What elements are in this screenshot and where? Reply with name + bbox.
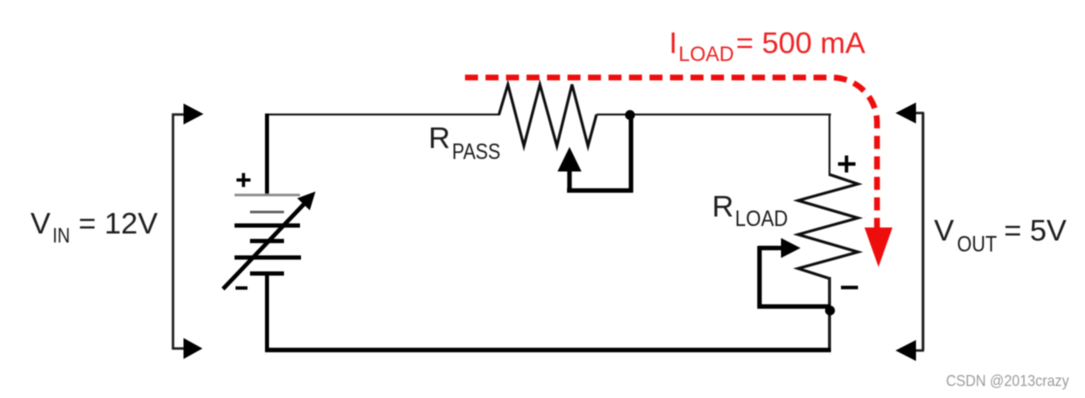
svg-text:V: V (934, 215, 954, 248)
wire: bottom rail (265, 348, 831, 353)
svg-text:R: R (712, 191, 734, 224)
battery plate 5 (long thick) (235, 255, 302, 259)
wire: R_PASS wiper feedback, vertical drop from node (629, 115, 634, 193)
red current arrowhead (865, 228, 893, 268)
wire: top rail left segment (265, 114, 500, 116)
wire: R_PASS wiper arrow shaft (567, 166, 572, 192)
V_IN bracket bottom arm (172, 347, 187, 349)
resistor R_PASS zigzag (499, 85, 597, 147)
svg-text:= 5V: = 5V (1004, 215, 1067, 248)
wire: right rail vertical (829, 114, 831, 177)
V_IN measurement bracket vertical (172, 114, 174, 350)
svg-text:V: V (31, 208, 51, 241)
V_IN bracket top arm (172, 113, 187, 115)
battery V1: top lead (265, 114, 269, 197)
V_IN bracket bottom arrowhead (184, 338, 203, 359)
svg-text:I: I (669, 27, 677, 60)
wire: R_LOAD bottom lead (828, 277, 831, 351)
svg-text:IN: IN (53, 225, 71, 248)
V_OUT bracket bottom arm (908, 349, 924, 351)
wire: R_LOAD wiper feedback, vertical rise (757, 246, 762, 309)
red dashed current path I_LOAD (465, 78, 877, 229)
svg-text:R: R (429, 122, 451, 155)
battery plate 4 (short thick) (250, 239, 284, 243)
minus sign at R_LOAD bottom (841, 286, 858, 289)
R_LOAD wiper arrowhead (781, 238, 801, 258)
svg-text:= 500 mA: = 500 mA (736, 27, 865, 60)
wire: R_LOAD wiper arrow shaft (758, 246, 783, 251)
svg-text:LOAD: LOAD (679, 42, 735, 66)
V_OUT measurement bracket vertical (922, 113, 925, 351)
V_IN bracket top arrowhead (184, 104, 204, 125)
svg-text:LOAD: LOAD (735, 206, 788, 231)
battery plate 3 (long thick) (235, 223, 301, 227)
V_OUT bracket top arrowhead (896, 103, 917, 124)
battery variable arrowhead (297, 192, 315, 211)
svg-text:CSDN @2013crazy: CSDN @2013crazy (946, 373, 1069, 390)
V_OUT bracket top arm (908, 112, 924, 114)
battery plate 2 (short thin) (250, 211, 284, 214)
svg-text:OUT: OUT (957, 232, 997, 257)
battery plate 1 (long thin) (235, 194, 301, 196)
minus sign at battery bottom (236, 286, 248, 289)
battery plate 6 (short thick) (250, 271, 284, 275)
battery bottom lead (265, 274, 269, 353)
wire: top rail right segment (597, 114, 832, 116)
svg-text:PASS: PASS (452, 139, 501, 164)
battery variable arrow shaft (223, 203, 305, 289)
R_PASS wiper arrowhead (558, 147, 582, 172)
plus sign at R_LOAD top (838, 156, 856, 173)
svg-text:= 12V: = 12V (79, 208, 158, 241)
resistor R_LOAD zigzag (798, 175, 858, 279)
wire: R_PASS wiper feedback, bottom horizontal (567, 188, 633, 193)
node A: junction dot after R_PASS (625, 110, 635, 120)
node B: junction dot at R_LOAD bottom (825, 306, 835, 316)
V_OUT bracket bottom arrowhead (896, 340, 917, 361)
plus sign at battery top (237, 173, 251, 187)
wire: R_LOAD wiper feedback, bottom horizontal (758, 304, 831, 309)
